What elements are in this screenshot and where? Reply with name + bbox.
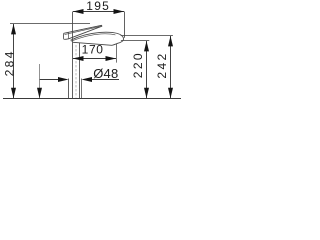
arrow 195 right: [114, 9, 125, 14]
faucet centerline dashed: [75, 45, 77, 98]
arrow 242 down: [168, 88, 173, 98]
arrow diameter48 left pointing right: [58, 77, 69, 82]
arrow x39 down: [37, 88, 42, 98]
arrow 284 up: [11, 24, 16, 34]
extension line 284 top: [10, 23, 90, 25]
arrow diameter48 right pointing left: [82, 77, 93, 82]
spout inner top edge: [71, 34, 116, 41]
dimension line 284: [13, 24, 15, 98]
handle lever wedge: [64, 25, 102, 39]
dimension line 220: [146, 41, 148, 98]
extension line 220: [121, 40, 149, 42]
arrow 220 up: [144, 41, 149, 51]
svg-text:170: 170: [82, 43, 104, 57]
dimension line 242: [170, 36, 172, 98]
svg-text:195: 195: [86, 0, 110, 13]
extension line 195 right: [124, 12, 126, 38]
handle inner edge: [65, 26, 101, 34]
faucet: [64, 12, 124, 99]
arrow 195 left: [73, 9, 84, 14]
svg-text:Ø48: Ø48: [93, 66, 118, 81]
faucet body right edge: [79, 43, 81, 99]
svg-text:242: 242: [155, 51, 169, 78]
faucet base flange left: [68, 79, 70, 99]
extension line 170 right: [116, 44, 118, 63]
reference line x39: [39, 64, 41, 98]
dimension line diameter48 right tail: [91, 79, 120, 81]
spout outline: [71, 32, 124, 45]
arrow 220 down: [144, 88, 149, 98]
dimension line 170: [73, 58, 116, 60]
arrow 284 down: [11, 88, 16, 98]
svg-text:284: 284: [2, 49, 16, 76]
handle cap right edge: [67, 33, 69, 39]
dimension line diameter48 left tail: [40, 79, 60, 81]
arrow 170 right: [106, 56, 117, 61]
arrowheads: [11, 9, 173, 98]
baseline counter surface: [3, 98, 181, 100]
arrow 242 up: [168, 36, 173, 46]
faucet body left edge and 195 left extension: [72, 12, 74, 99]
faucet base flange right: [81, 79, 83, 99]
arrow 170 left: [73, 56, 84, 61]
dimension line 195: [73, 11, 124, 13]
svg-text:220: 220: [131, 51, 145, 78]
extension line 242: [121, 35, 173, 37]
